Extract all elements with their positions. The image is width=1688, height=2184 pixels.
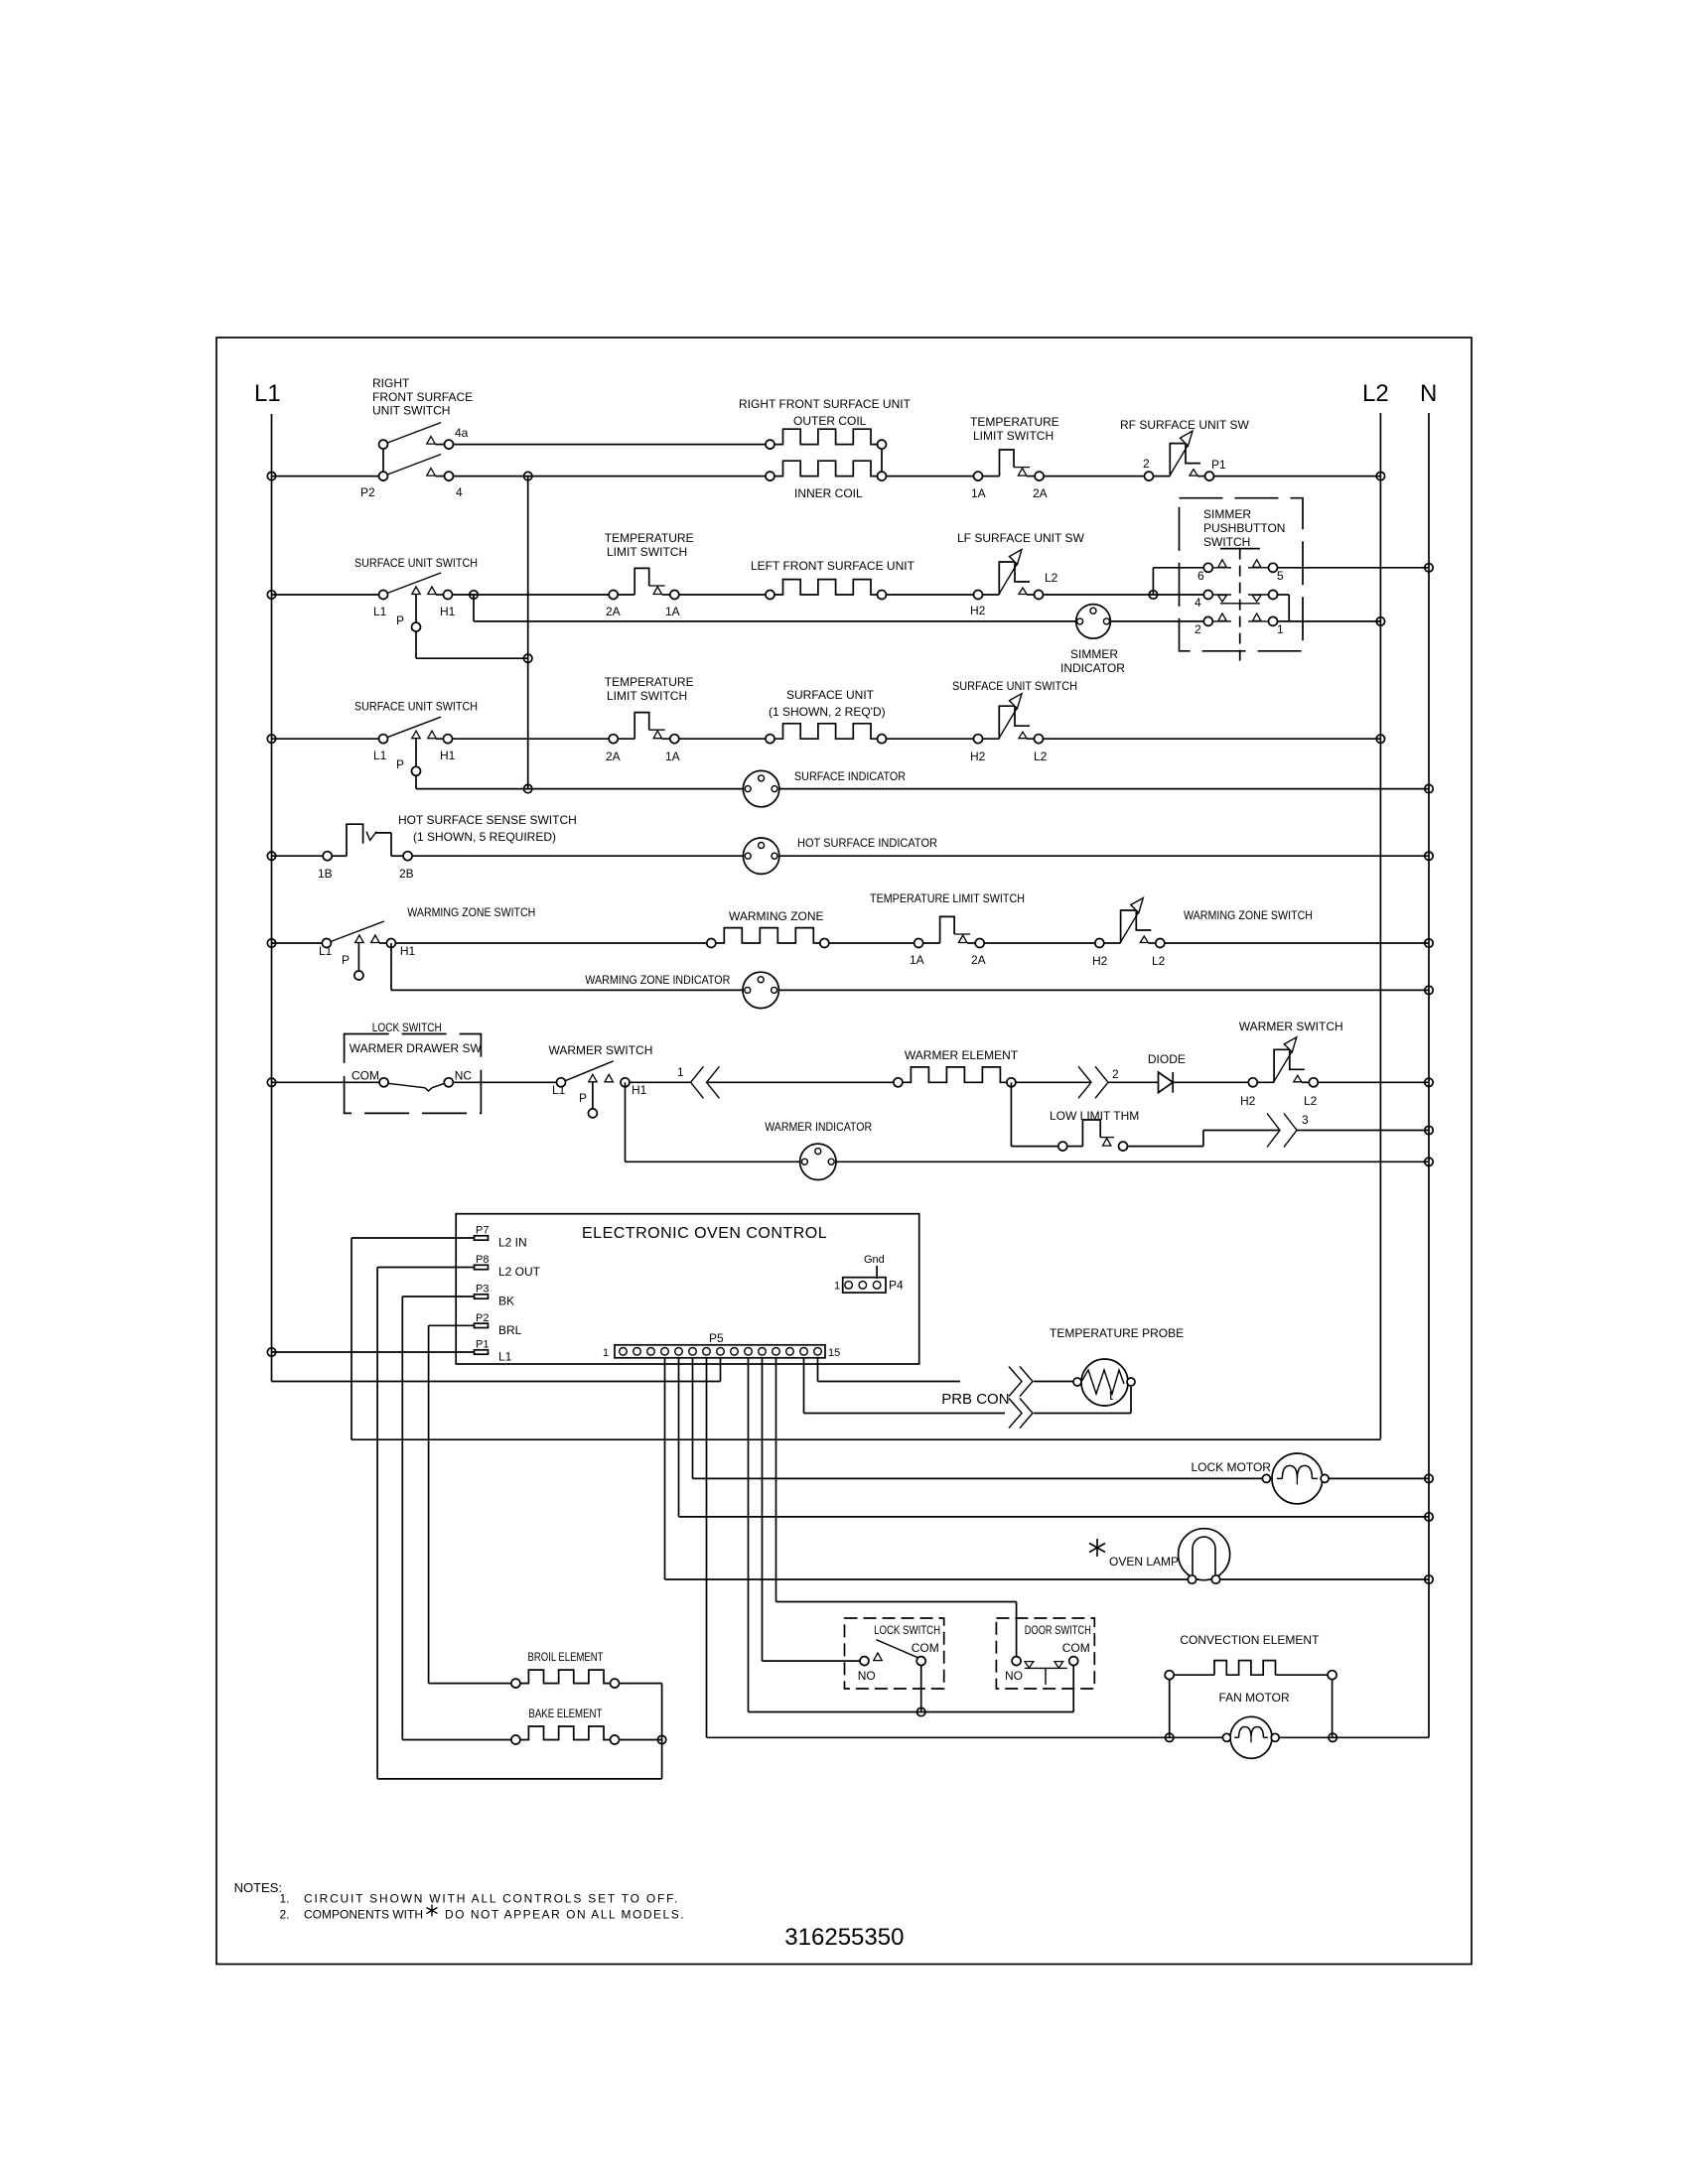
svg-text:1A: 1A (910, 953, 924, 967)
svg-text:316255350: 316255350 (784, 1924, 904, 1951)
svg-text:H1: H1 (440, 749, 456, 762)
svg-text:LF SURFACE UNIT SW: LF SURFACE UNIT SW (957, 531, 1084, 545)
svg-text:LOCK SWITCH: LOCK SWITCH (372, 1021, 442, 1034)
svg-text:P2: P2 (476, 1312, 489, 1324)
svg-text:2: 2 (1195, 622, 1201, 636)
svg-text:1: 1 (603, 1347, 609, 1359)
svg-text:BROIL ELEMENT: BROIL ELEMENT (528, 1650, 605, 1664)
svg-text:LOW LIMIT THM: LOW LIMIT THM (1050, 1109, 1139, 1123)
svg-text:FRONT SURFACE: FRONT SURFACE (372, 390, 473, 404)
svg-text:L2 IN: L2 IN (498, 1236, 527, 1250)
svg-text:1A: 1A (665, 750, 680, 763)
svg-text:INNER COIL: INNER COIL (794, 486, 863, 500)
svg-text:4: 4 (1195, 596, 1201, 610)
svg-text:NOTES:: NOTES: (234, 1880, 282, 1895)
svg-text:P8: P8 (476, 1254, 489, 1266)
svg-text:DIODE: DIODE (1148, 1052, 1186, 1066)
svg-text:HOT SURFACE INDICATOR: HOT SURFACE INDICATOR (797, 836, 937, 850)
svg-text:H2: H2 (1092, 954, 1108, 968)
svg-text:SURFACE UNIT SWITCH: SURFACE UNIT SWITCH (354, 700, 478, 714)
svg-text:LIMIT SWITCH: LIMIT SWITCH (607, 545, 687, 559)
svg-text:2A: 2A (606, 605, 621, 618)
svg-text:2B: 2B (399, 867, 414, 881)
svg-text:L2: L2 (1304, 1094, 1318, 1108)
svg-text:PRB CON: PRB CON (941, 1391, 1009, 1408)
svg-text:HOT SURFACE SENSE SWITCH: HOT SURFACE SENSE SWITCH (398, 813, 577, 827)
svg-text:DO NOT APPEAR ON ALL MODELS.: DO NOT APPEAR ON ALL MODELS. (445, 1908, 685, 1922)
svg-text:H2: H2 (970, 604, 986, 617)
svg-text:TEMPERATURE PROBE: TEMPERATURE PROBE (1050, 1326, 1184, 1340)
svg-text:L1: L1 (254, 380, 281, 407)
svg-text:P1: P1 (1211, 458, 1226, 472)
svg-text:NO: NO (1005, 1669, 1023, 1683)
svg-text:BAKE ELEMENT: BAKE ELEMENT (528, 1706, 603, 1720)
svg-text:LIMIT SWITCH: LIMIT SWITCH (973, 429, 1054, 443)
svg-text:UNIT SWITCH: UNIT SWITCH (372, 404, 450, 418)
svg-text:1A: 1A (971, 486, 986, 500)
svg-text:LEFT FRONT SURFACE UNIT: LEFT FRONT SURFACE UNIT (751, 559, 915, 573)
svg-text:1: 1 (1277, 622, 1284, 636)
svg-text:LOCK MOTOR: LOCK MOTOR (1192, 1460, 1272, 1474)
svg-text:L2: L2 (1152, 954, 1166, 968)
svg-text:WARMING ZONE INDICATOR: WARMING ZONE INDICATOR (585, 973, 730, 987)
svg-text:COM: COM (352, 1069, 379, 1083)
svg-text:5: 5 (1277, 569, 1284, 583)
svg-text:H1: H1 (632, 1083, 647, 1097)
svg-text:COMPONENTS WITH: COMPONENTS WITH (304, 1908, 423, 1922)
svg-text:1: 1 (677, 1065, 684, 1079)
svg-text:(1 SHOWN, 2 REQ'D): (1 SHOWN, 2 REQ'D) (769, 705, 886, 719)
svg-text:TEMPERATURE: TEMPERATURE (970, 415, 1059, 429)
svg-text:WARMING ZONE SWITCH: WARMING ZONE SWITCH (1184, 908, 1313, 922)
svg-text:L2 OUT: L2 OUT (498, 1265, 541, 1279)
svg-text:CIRCUIT SHOWN WITH ALL CONTROL: CIRCUIT SHOWN WITH ALL CONTROLS SET TO O… (304, 1892, 679, 1906)
svg-text:P: P (579, 1091, 587, 1105)
svg-text:CONVECTION ELEMENT: CONVECTION ELEMENT (1180, 1633, 1320, 1647)
svg-text:H1: H1 (400, 944, 416, 958)
svg-text:N: N (1420, 380, 1437, 407)
svg-text:2.: 2. (280, 1908, 290, 1922)
svg-text:L2: L2 (1045, 571, 1058, 585)
svg-text:2A: 2A (971, 953, 986, 967)
svg-text:Gnd: Gnd (864, 1254, 885, 1266)
svg-text:L2: L2 (1034, 750, 1048, 763)
svg-text:OVEN LAMP: OVEN LAMP (1109, 1555, 1179, 1569)
svg-text:RF SURFACE UNIT SW: RF SURFACE UNIT SW (1120, 418, 1249, 432)
svg-text:L1: L1 (498, 1350, 512, 1364)
svg-text:2A: 2A (1033, 486, 1048, 500)
svg-text:1B: 1B (318, 867, 333, 881)
svg-text:SWITCH: SWITCH (1203, 535, 1250, 549)
svg-text:P: P (396, 757, 404, 771)
svg-text:P3: P3 (476, 1284, 489, 1296)
svg-text:L1: L1 (373, 749, 387, 762)
svg-text:WARMER INDICATOR: WARMER INDICATOR (765, 1120, 872, 1134)
svg-text:DOOR SWITCH: DOOR SWITCH (1025, 1623, 1091, 1637)
svg-text:P: P (342, 953, 350, 967)
svg-text:4: 4 (456, 485, 463, 499)
svg-text:WARMER SWITCH: WARMER SWITCH (549, 1043, 653, 1057)
svg-text:BRL: BRL (498, 1323, 522, 1337)
svg-text:LIMIT SWITCH: LIMIT SWITCH (607, 689, 687, 703)
svg-text:SURFACE UNIT SWITCH: SURFACE UNIT SWITCH (952, 679, 1077, 693)
svg-text:2: 2 (1112, 1067, 1119, 1081)
svg-text:NO: NO (858, 1669, 876, 1683)
svg-text:FAN MOTOR: FAN MOTOR (1219, 1691, 1290, 1705)
svg-text:BK: BK (498, 1295, 514, 1308)
svg-text:1.: 1. (280, 1892, 290, 1906)
svg-text:H1: H1 (440, 605, 456, 618)
svg-text:4a: 4a (455, 426, 469, 440)
svg-text:P: P (396, 614, 404, 627)
svg-text:H2: H2 (1240, 1094, 1256, 1108)
svg-text:SURFACE UNIT: SURFACE UNIT (786, 688, 875, 702)
svg-text:WARMING ZONE: WARMING ZONE (729, 909, 824, 923)
svg-text:OUTER COIL: OUTER COIL (793, 414, 867, 428)
svg-text:L1: L1 (319, 944, 333, 958)
svg-text:RIGHT FRONT SURFACE UNIT: RIGHT FRONT SURFACE UNIT (739, 397, 912, 411)
svg-text:COM: COM (912, 1641, 939, 1655)
svg-text:WARMER ELEMENT: WARMER ELEMENT (905, 1048, 1019, 1062)
svg-text:SURFACE INDICATOR: SURFACE INDICATOR (794, 769, 906, 783)
svg-text:COM: COM (1062, 1641, 1090, 1655)
svg-text:WARMING ZONE SWITCH: WARMING ZONE SWITCH (407, 905, 535, 919)
svg-text:P1: P1 (476, 1339, 489, 1351)
svg-text:SIMMER: SIMMER (1203, 507, 1251, 521)
svg-text:ELECTRONIC OVEN CONTROL: ELECTRONIC OVEN CONTROL (582, 1225, 827, 1242)
svg-text:2: 2 (1143, 457, 1150, 471)
svg-text:1: 1 (834, 1281, 840, 1293)
svg-text:RIGHT: RIGHT (372, 376, 410, 390)
svg-text:L1: L1 (552, 1083, 566, 1097)
svg-text:TEMPERATURE: TEMPERATURE (605, 675, 694, 689)
svg-text:P2: P2 (360, 485, 375, 499)
svg-text:INDICATOR: INDICATOR (1060, 661, 1125, 675)
svg-text:L1: L1 (373, 605, 387, 618)
svg-text:3: 3 (1302, 1113, 1309, 1127)
svg-text:SIMMER: SIMMER (1070, 647, 1118, 661)
svg-text:1A: 1A (665, 605, 680, 618)
svg-text:P4: P4 (889, 1279, 904, 1293)
svg-text:WARMER DRAWER SW: WARMER DRAWER SW (350, 1041, 483, 1055)
svg-text:LOCK SWITCH: LOCK SWITCH (874, 1623, 940, 1637)
svg-text:P5: P5 (709, 1331, 724, 1345)
svg-text:WARMER SWITCH: WARMER SWITCH (1239, 1020, 1343, 1033)
svg-text:2A: 2A (606, 750, 621, 763)
svg-text:PUSHBUTTON: PUSHBUTTON (1203, 521, 1285, 535)
svg-text:NC: NC (455, 1069, 473, 1083)
svg-text:(1 SHOWN, 5 REQUIRED): (1 SHOWN, 5 REQUIRED) (413, 830, 556, 844)
svg-text:6: 6 (1197, 569, 1204, 583)
svg-text:TEMPERATURE LIMIT SWITCH: TEMPERATURE LIMIT SWITCH (870, 891, 1025, 905)
svg-text:t: t (1109, 1387, 1113, 1403)
svg-text:P7: P7 (476, 1225, 489, 1237)
svg-text:SURFACE UNIT SWITCH: SURFACE UNIT SWITCH (354, 556, 478, 570)
svg-text:15: 15 (828, 1347, 840, 1359)
svg-text:TEMPERATURE: TEMPERATURE (605, 531, 694, 545)
svg-text:H2: H2 (970, 750, 986, 763)
svg-text:L2: L2 (1362, 380, 1389, 407)
